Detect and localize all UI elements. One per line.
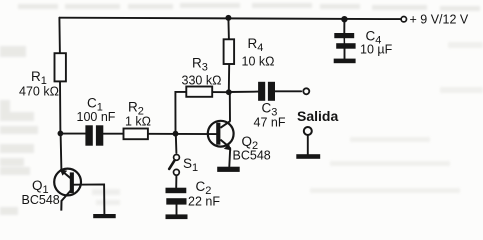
ground: Q2 emitter [217, 167, 240, 172]
capacitor C3 [258, 82, 275, 101]
ground: output return [296, 154, 320, 159]
node dot: rail/C4 junction [341, 16, 347, 22]
output return terminal circle [304, 127, 312, 135]
wire: node down to Q2 collector [229, 92, 231, 121]
node dot: rail/R4 junction [225, 15, 231, 21]
svg-text:100 nF: 100 nF [77, 110, 116, 124]
resistor R1 [55, 53, 66, 81]
resistor R2 [124, 129, 148, 140]
wire: C4 stem from rail [343, 19, 345, 33]
emitter diagonal with arrow (points down-right) [220, 140, 227, 146]
svg-text:1 kΩ: 1 kΩ [125, 115, 151, 129]
resistor R3 [186, 87, 212, 97]
node A dot: R1/C1/Q1 junction [58, 131, 64, 137]
capacitor C2 [166, 188, 187, 205]
capacitor C4 (electrolytic) [334, 33, 355, 49]
wire: Q2 emitter down to ground [228, 148, 231, 167]
collector diagonal and stub [61, 191, 70, 211]
emitter diagonal with arrow (points up-left) [63, 172, 71, 178]
node dot: R3/R4/C3/collector junction [226, 89, 232, 95]
svg-text:BC548: BC548 [233, 149, 271, 163]
wire: R4 bottom to node [228, 64, 230, 92]
svg-text:10 kΩ: 10 kΩ [242, 55, 275, 69]
supply terminal circle [401, 17, 406, 22]
resistor R4 [224, 39, 235, 64]
wire: node A to C1 [60, 133, 85, 135]
collector diagonal [220, 121, 230, 128]
wire: R1 bottom to node A [59, 81, 61, 133]
wire: R3 right side to R4/C3 node [212, 91, 229, 93]
wire: left vertical from rail corner to R1 top [58, 18, 61, 54]
wire: C4 to ground [344, 49, 346, 59]
wire: output return terminal to ground [307, 135, 309, 154]
svg-text:Salida: Salida [297, 108, 338, 124]
svg-text:470 kΩ: 470 kΩ [19, 85, 59, 99]
output terminal circle (Salida) [303, 88, 309, 94]
wire: C4 inter-plate stem [343, 38, 345, 43]
wire: node B up and right to R3 [175, 92, 186, 134]
ground: C2 [166, 214, 188, 219]
wire: node A down to Q1 emitter [60, 133, 63, 169]
switch S1 [169, 155, 179, 176]
svg-text:22 nF: 22 nF [188, 195, 220, 209]
wire: C1 to R2 [103, 133, 123, 135]
svg-text:330 kΩ: 330 kΩ [182, 74, 222, 88]
wire: S1 to C2 [175, 175, 177, 187]
transistor Q2 [208, 121, 234, 151]
svg-text:BC548: BC548 [22, 193, 60, 207]
wire: R2 to node B to Q2 base [148, 133, 216, 135]
wire: Q1 base to corner and down to ground [74, 184, 105, 214]
wire: top supply rail [59, 18, 401, 19]
capacitor C1 [85, 125, 103, 145]
wire: C2 to ground [176, 205, 178, 215]
svg-text:47 nF: 47 nF [254, 116, 286, 130]
svg-text:+ 9 V/12 V: + 9 V/12 V [410, 13, 469, 27]
wire: node B down to switch S1 [175, 134, 178, 153]
ground: Q1 base [93, 214, 116, 218]
wire: rail dot down to R4 [227, 18, 230, 39]
transistor Q1 [54, 169, 81, 211]
wire: C3 to output terminal [275, 90, 301, 92]
node B dot: R2/R3/S1/Q2 junction [173, 131, 179, 137]
svg-text:10 µF: 10 µF [360, 43, 393, 57]
wire: node to C3 [229, 91, 258, 93]
ground: C4 [334, 59, 356, 64]
